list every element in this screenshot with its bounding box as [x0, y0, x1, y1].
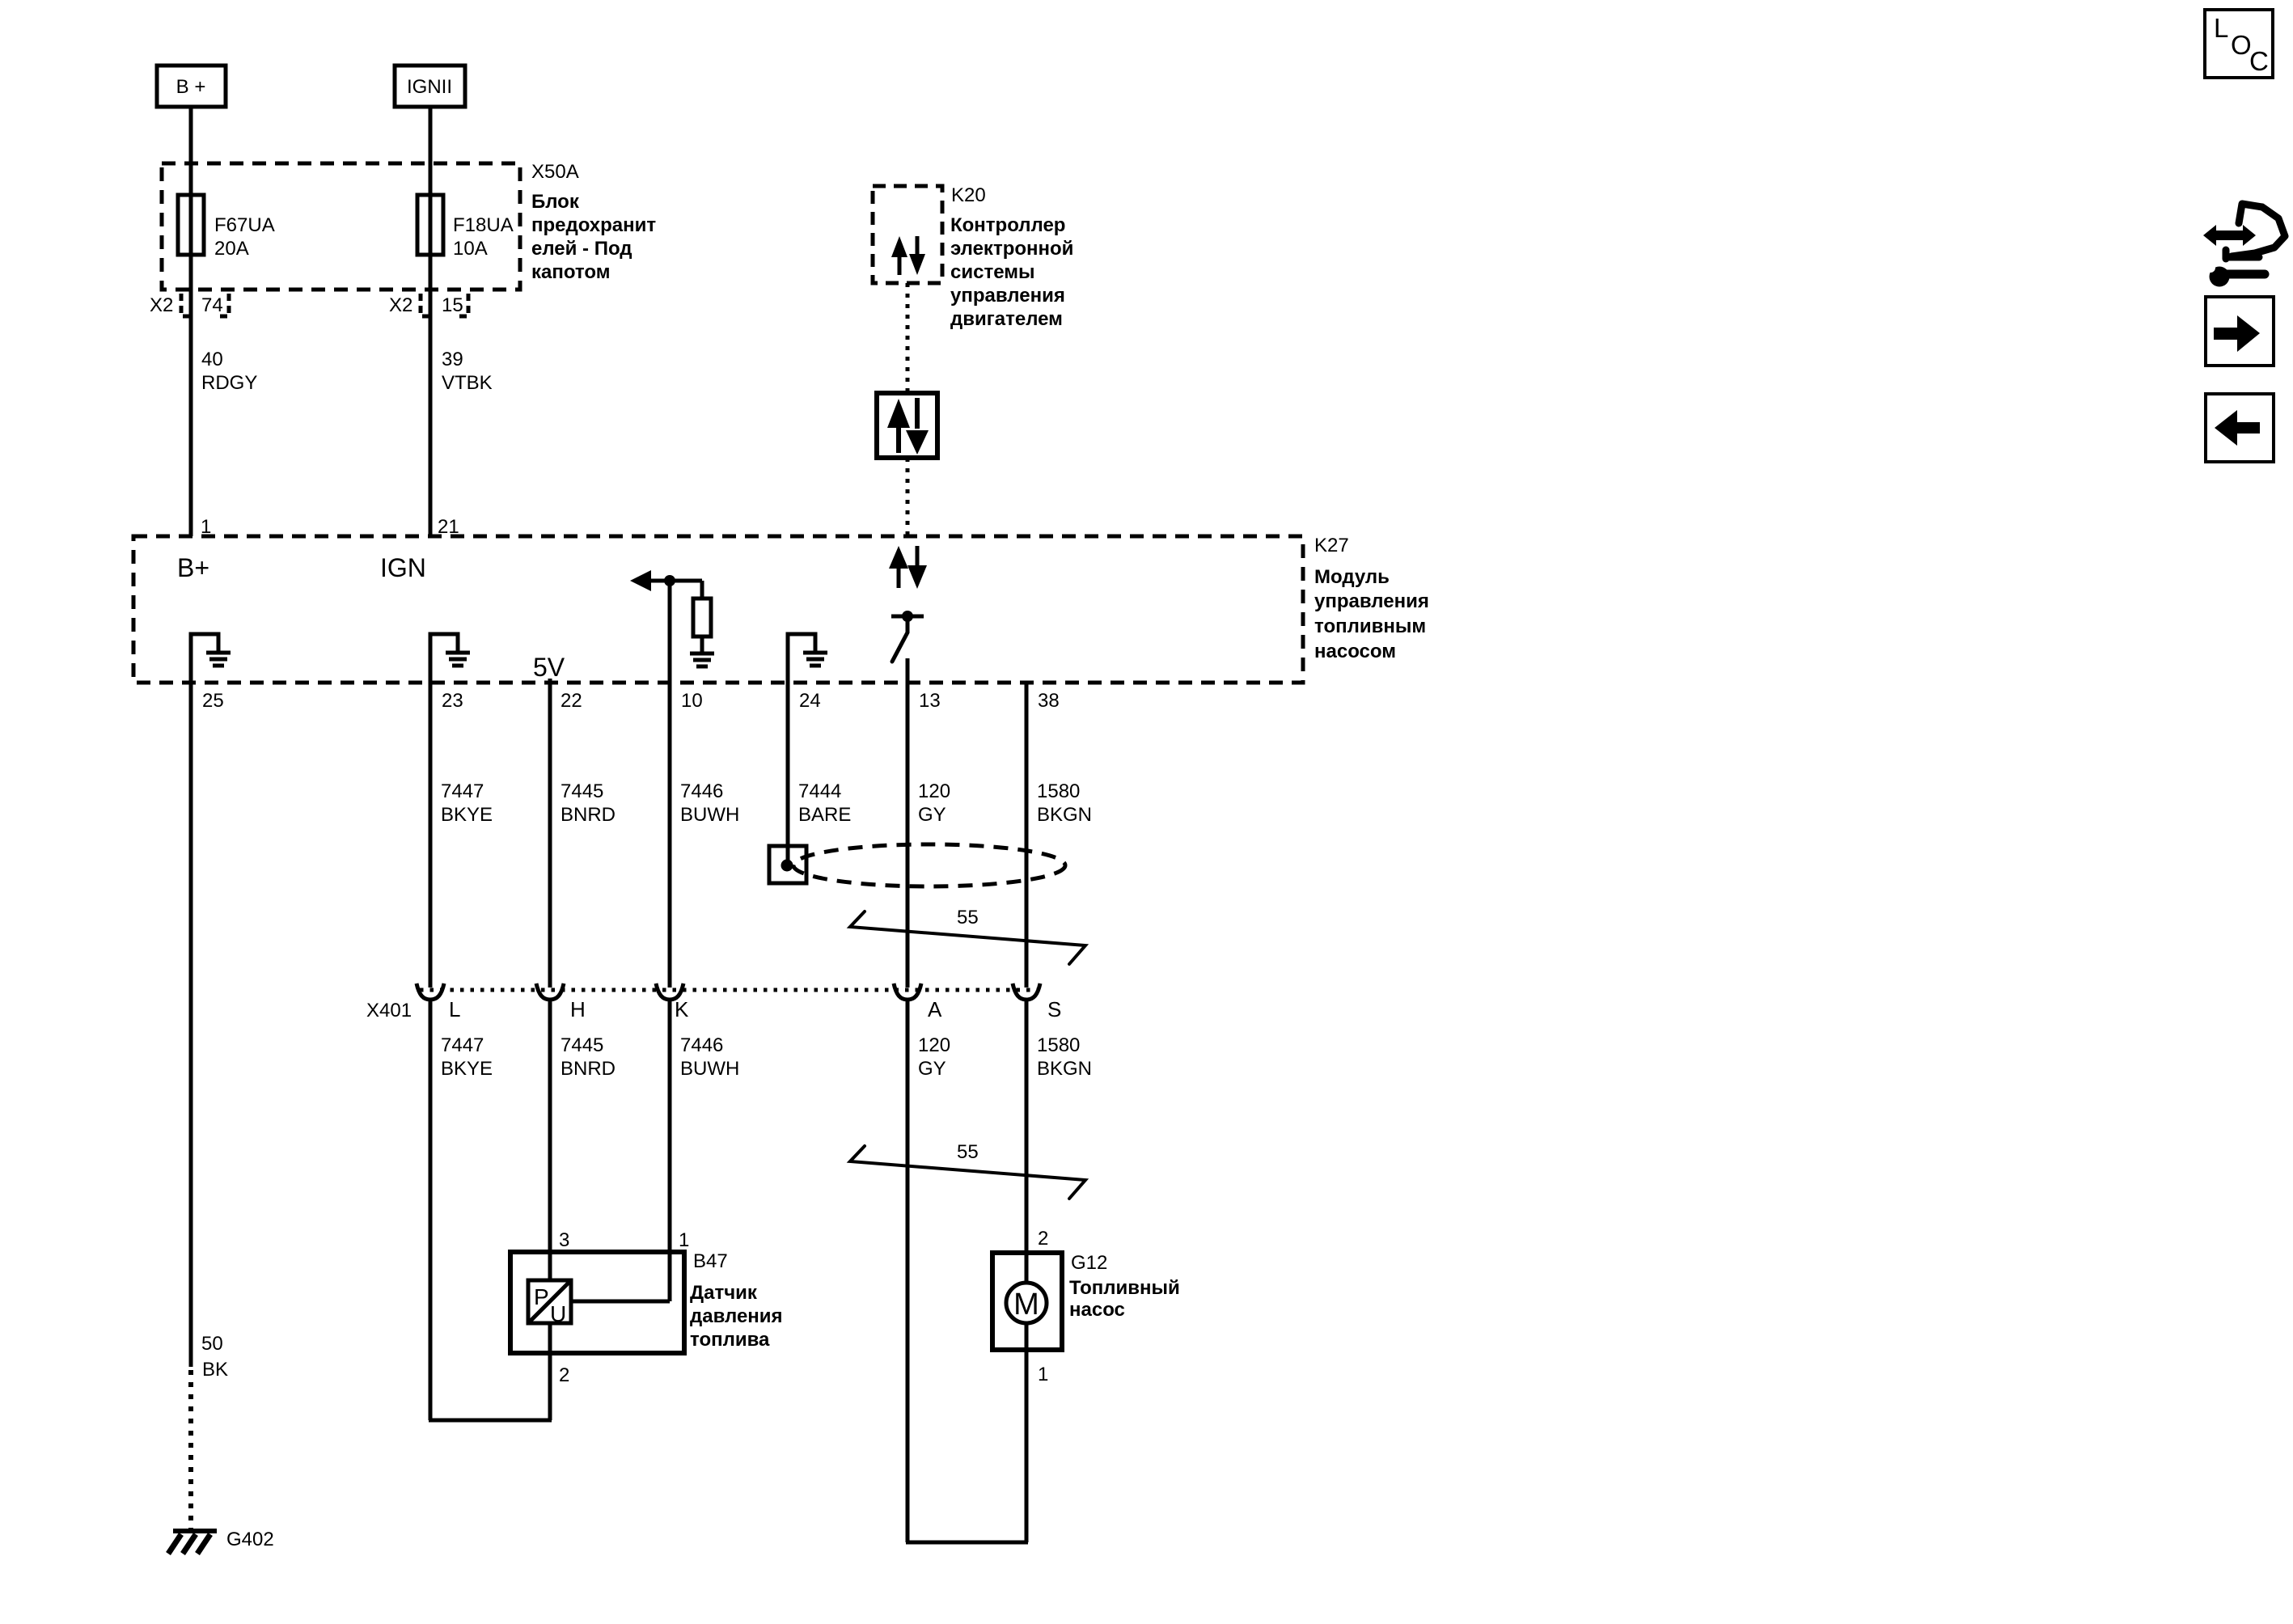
svg-text:P: P: [534, 1284, 549, 1309]
svg-text:7446: 7446: [680, 780, 723, 802]
wire 13 GY lower: [906, 1000, 910, 1542]
wire 22 BNRD lower to sensor: [548, 1000, 552, 1280]
svg-text:G402: G402: [226, 1529, 274, 1550]
wire jumper sensor pin2 to BKYE: [429, 1419, 552, 1423]
X50A fuse block label: [531, 161, 656, 283]
svg-text:120: 120: [918, 780, 950, 802]
wire 10 BUWH lower: [668, 1000, 672, 1301]
wire 23 BKYE lower: [429, 1000, 433, 1420]
svg-text:25: 25: [202, 690, 224, 712]
wire label 7444 BARE: [798, 780, 851, 826]
svg-text:BKYE: BKYE: [441, 1058, 493, 1080]
wire label 120 GY upper: [918, 780, 950, 826]
wire label 1580 BKGN lower: [1037, 1034, 1092, 1080]
svg-text:GY: GY: [918, 1058, 946, 1080]
svg-text:двигателем: двигателем: [950, 308, 1063, 330]
fuel pressure sensor B47: [510, 1252, 684, 1353]
internal resistor with arrow at pin 10: [630, 570, 714, 666]
svg-text:капотом: капотом: [531, 261, 610, 283]
svg-text:BUWH: BUWH: [680, 804, 739, 826]
wire label 39 VTBK: [442, 349, 493, 394]
connector X2 pin 15: [389, 294, 468, 316]
connector cup L: [417, 983, 444, 1000]
svg-text:X401: X401: [366, 1000, 412, 1021]
svg-text:7447: 7447: [441, 780, 484, 802]
svg-text:предохранит: предохранит: [531, 214, 656, 236]
wire label 7446 BUWH upper: [680, 780, 739, 826]
svg-text:Модуль: Модуль: [1314, 566, 1390, 588]
fuse block X50A dashed box: [162, 163, 520, 290]
wire label 7446 BUWH lower: [680, 1034, 739, 1080]
wire 38 BKGN lower: [1025, 1000, 1029, 1253]
svg-text:15: 15: [442, 294, 463, 316]
svg-text:L: L: [449, 997, 460, 1021]
left arrow icon: [2206, 394, 2274, 462]
svg-text:55: 55: [957, 1141, 979, 1163]
svg-text:BKGN: BKGN: [1037, 1058, 1092, 1080]
svg-text:IGN: IGN: [380, 553, 426, 582]
reference icon arrows and wrench: [2203, 204, 2285, 287]
K20 serial data arrows: [891, 236, 925, 275]
svg-text:50: 50: [201, 1333, 223, 1355]
svg-text:B+: B+: [177, 553, 209, 582]
wire IGNII feed to K27 pin 21: [429, 107, 433, 536]
svg-text:5V: 5V: [533, 653, 565, 682]
fuse F67UA: [178, 195, 275, 260]
svg-text:7445: 7445: [561, 1034, 603, 1056]
dotted data wire K20 to data symbol: [906, 283, 910, 393]
svg-text:давления: давления: [690, 1305, 783, 1327]
wire 13 GY upper: [906, 658, 910, 988]
wire label 7445 BNRD lower: [561, 1034, 616, 1080]
wire label 40 RDGY: [201, 349, 257, 394]
svg-text:B +: B +: [176, 76, 206, 98]
svg-text:Датчик: Датчик: [690, 1282, 758, 1304]
svg-text:BNRD: BNRD: [561, 804, 616, 826]
serial data link symbol box: [877, 393, 937, 458]
wire 25 BK down: [189, 683, 193, 1367]
svg-text:G12: G12: [1071, 1252, 1107, 1274]
svg-text:электронной: электронной: [950, 238, 1073, 260]
svg-text:74: 74: [201, 294, 223, 316]
svg-text:1: 1: [1038, 1364, 1048, 1385]
power feed box B+: [157, 66, 226, 107]
fuel pump control module K27 dashed box: [133, 536, 1303, 683]
wire B+ feed to K27 pin 1: [189, 107, 193, 536]
svg-text:39: 39: [442, 349, 463, 370]
G12 label: [1069, 1252, 1180, 1321]
wire 25 BK dotted section: [188, 1370, 193, 1529]
ground symbol at pin 25: [191, 634, 231, 683]
svg-text:7445: 7445: [561, 780, 603, 802]
wire 22 BNRD upper: [548, 679, 552, 988]
svg-text:38: 38: [1038, 690, 1060, 712]
svg-text:2: 2: [1038, 1228, 1048, 1250]
svg-text:55: 55: [957, 907, 979, 928]
ground symbol at pin 23: [430, 634, 470, 683]
ground symbol at pin 24: [788, 634, 827, 683]
svg-text:2: 2: [559, 1364, 569, 1386]
svg-text:7446: 7446: [680, 1034, 723, 1056]
svg-text:1: 1: [201, 516, 211, 538]
svg-text:S: S: [1047, 997, 1061, 1021]
wire 23 BKYE upper: [429, 683, 433, 988]
inline connector X401 dotted line: [420, 988, 1039, 992]
svg-text:C: C: [2249, 46, 2269, 76]
svg-text:22: 22: [561, 690, 582, 712]
svg-text:топливным: топливным: [1314, 615, 1426, 637]
ground G402: [168, 1529, 274, 1554]
svg-text:K27: K27: [1314, 535, 1349, 556]
svg-text:управления: управления: [1314, 590, 1429, 612]
svg-text:7444: 7444: [798, 780, 841, 802]
switch at pin 13: [891, 611, 924, 662]
svg-text:A: A: [928, 997, 942, 1021]
shield ellipse: [793, 844, 1065, 886]
svg-text:Блок: Блок: [531, 191, 580, 213]
svg-text:3: 3: [559, 1229, 569, 1251]
svg-text:BKYE: BKYE: [441, 804, 493, 826]
svg-text:насос: насос: [1069, 1299, 1125, 1321]
svg-text:елей - Под: елей - Под: [531, 238, 632, 260]
svg-text:120: 120: [918, 1034, 950, 1056]
svg-text:21: 21: [438, 516, 459, 538]
wire pump pin 1: [1025, 1350, 1029, 1542]
B47 label: [690, 1250, 783, 1351]
svg-text:U: U: [550, 1301, 566, 1326]
connector cup K: [656, 983, 683, 1000]
wire label 7447 BKYE upper: [441, 780, 493, 826]
svg-text:X2: X2: [389, 294, 412, 316]
twisted pair symbol 55 upper: [850, 907, 1085, 964]
svg-text:K: K: [675, 997, 689, 1021]
twisted pair symbol 55 lower: [850, 1141, 1085, 1199]
svg-text:13: 13: [919, 690, 941, 712]
svg-text:насосом: насосом: [1314, 641, 1396, 662]
svg-text:IGNII: IGNII: [407, 76, 452, 98]
svg-text:O: O: [2231, 30, 2252, 60]
power feed box IGNII: [395, 66, 465, 107]
wire label 7447 BKYE lower: [441, 1034, 493, 1080]
svg-text:VTBK: VTBK: [442, 372, 493, 394]
svg-text:X2: X2: [150, 294, 173, 316]
svg-text:топлива: топлива: [690, 1329, 770, 1351]
svg-text:K20: K20: [951, 184, 986, 206]
dotted data wire data symbol to K27: [906, 458, 910, 536]
K20 label: [950, 184, 1073, 330]
svg-text:X50A: X50A: [531, 161, 579, 183]
svg-text:10: 10: [681, 690, 703, 712]
svg-text:системы: системы: [950, 261, 1034, 283]
connector cup S: [1013, 983, 1040, 1000]
svg-text:RDGY: RDGY: [201, 372, 257, 394]
svg-text:управления: управления: [950, 285, 1065, 307]
svg-text:BARE: BARE: [798, 804, 851, 826]
fuel pump G12: [992, 1253, 1062, 1350]
svg-text:Топливный: Топливный: [1069, 1277, 1180, 1299]
svg-text:BK: BK: [202, 1359, 228, 1381]
svg-text:BUWH: BUWH: [680, 1058, 739, 1080]
right arrow icon: [2206, 297, 2274, 366]
svg-text:F18UA: F18UA: [453, 214, 514, 236]
svg-text:7447: 7447: [441, 1034, 484, 1056]
wire label 50 BK: [201, 1333, 228, 1381]
svg-text:BKGN: BKGN: [1037, 804, 1092, 826]
LOC icon: [2205, 10, 2273, 78]
wire label 7445 BNRD upper: [561, 780, 616, 826]
wire label 120 GY lower: [918, 1034, 950, 1080]
svg-text:F67UA: F67UA: [214, 214, 275, 236]
wire 24 BARE: [786, 683, 790, 862]
svg-text:1: 1: [679, 1229, 689, 1251]
svg-text:40: 40: [201, 349, 223, 370]
K27 label: [1314, 535, 1429, 662]
svg-text:B47: B47: [693, 1250, 728, 1272]
controller K20 dashed box: [873, 186, 942, 283]
svg-text:1580: 1580: [1037, 780, 1080, 802]
connector cup A: [894, 983, 921, 1000]
svg-text:H: H: [570, 997, 586, 1021]
svg-text:L: L: [2214, 13, 2228, 43]
serial data arrows at pin 13: [889, 546, 927, 589]
wire sensor pin 2: [548, 1323, 552, 1420]
svg-text:10A: 10A: [453, 238, 488, 260]
svg-text:M: M: [1013, 1288, 1039, 1322]
svg-text:23: 23: [442, 690, 463, 712]
svg-text:GY: GY: [918, 804, 946, 826]
wire 38 BKGN upper: [1025, 683, 1029, 988]
svg-text:1580: 1580: [1037, 1034, 1080, 1056]
wire label 1580 BKGN upper: [1037, 780, 1092, 826]
wire jumper GY to pump pin 1: [906, 1541, 1028, 1545]
connector cup H: [536, 983, 564, 1000]
splice ground box on BARE wire: [769, 846, 806, 883]
svg-text:BNRD: BNRD: [561, 1058, 616, 1080]
svg-text:24: 24: [799, 690, 821, 712]
wire 10 BUWH: [668, 581, 672, 988]
fuse F18UA: [417, 195, 514, 260]
svg-text:20A: 20A: [214, 238, 249, 260]
connector X2 pin 74: [150, 294, 229, 316]
svg-text:Контроллер: Контроллер: [950, 214, 1065, 236]
